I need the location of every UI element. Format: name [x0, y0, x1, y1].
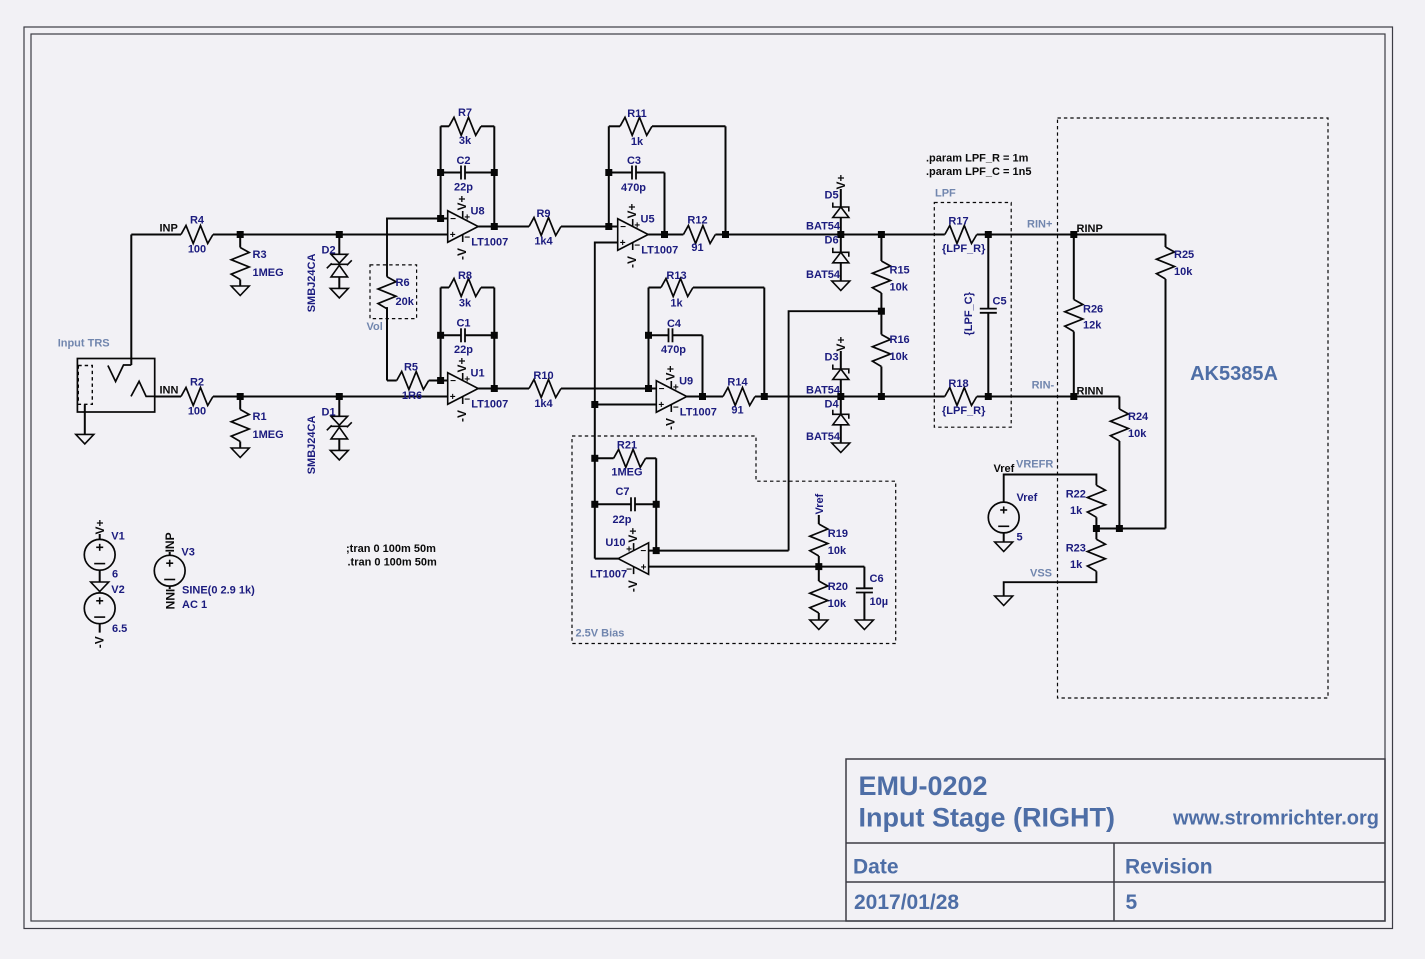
resistor R4: [181, 226, 213, 244]
svg-text:1R6: 1R6: [402, 390, 422, 402]
op-amp U9 LT1007: [656, 381, 687, 413]
node junction bias line U9: [591, 401, 598, 408]
dashed box AK5385A ADC: [1058, 118, 1329, 698]
svg-text:−: −: [634, 240, 640, 251]
svg-text:-V: -V: [455, 248, 469, 260]
svg-text:+: +: [634, 221, 640, 232]
resistor R13: [649, 287, 662, 289]
svg-text:VREFR: VREFR: [1016, 459, 1053, 471]
svg-text:+: +: [658, 400, 664, 411]
node junction U8 output: [491, 223, 498, 230]
wire R21 right vertical: [655, 458, 657, 551]
svg-text:U8: U8: [471, 206, 485, 218]
wire C3 right vertical down to U5 output: [664, 173, 666, 235]
svg-text:C1: C1: [456, 318, 470, 330]
svg-text:10k: 10k: [1174, 266, 1193, 278]
svg-text:U10: U10: [605, 537, 625, 549]
svg-text:1MEG: 1MEG: [253, 267, 284, 279]
node junction U9 output C4: [699, 393, 706, 400]
svg-text:R5: R5: [404, 362, 418, 374]
svg-text:+: +: [450, 392, 456, 403]
node junction D1 top: [336, 393, 343, 400]
svg-text:−: −: [640, 546, 646, 557]
svg-text:-V: -V: [664, 418, 678, 430]
svg-text:AK5385A: AK5385A: [1190, 363, 1278, 385]
ground D1: [330, 450, 348, 460]
svg-text:D1: D1: [322, 407, 336, 419]
resistor R9: [529, 218, 561, 236]
svg-text:1MEG: 1MEG: [253, 429, 284, 441]
svg-text:+: +: [641, 562, 647, 573]
node RINP: [1070, 231, 1077, 238]
svg-text:−: −: [673, 402, 679, 413]
svg-text:+: +: [464, 375, 470, 386]
svg-text:1k: 1k: [670, 298, 683, 310]
svg-text:C7: C7: [615, 486, 629, 498]
node junction C1 right: [491, 332, 498, 339]
title block: [846, 759, 1385, 921]
svg-text:R13: R13: [666, 270, 686, 282]
ground C6: [855, 620, 873, 630]
node junction U9 inverting input: [645, 385, 652, 392]
svg-text:R19: R19: [828, 528, 848, 540]
wire RIN+ row R12 to R17: [715, 234, 944, 236]
svg-text:10k: 10k: [828, 545, 847, 557]
node junction R16 bottom: [878, 393, 885, 400]
node junction U1 output: [491, 385, 498, 392]
svg-text:−: −: [659, 384, 665, 395]
wire midpoint to bias feedback: [789, 311, 882, 550]
svg-text:C5: C5: [993, 296, 1007, 308]
wire U10 inverting input from midpoint feedback: [649, 550, 789, 552]
svg-text:V+: V+: [455, 195, 469, 210]
svg-text:3k: 3k: [459, 298, 472, 310]
node junction R11 feedback: [722, 231, 729, 238]
svg-text:91: 91: [731, 405, 743, 417]
svg-text:1k4: 1k4: [534, 236, 553, 248]
wire U1 feedback right vertical: [493, 288, 495, 389]
node junction U5 inverting input: [605, 223, 612, 230]
diode D6 BAT54: [840, 235, 842, 253]
wire bias vertical line: [594, 405, 596, 559]
svg-text:D4: D4: [825, 399, 840, 411]
svg-text:LT1007: LT1007: [590, 568, 627, 580]
node junction R15 R16 midpoint: [878, 308, 885, 315]
svg-text:EMU-0202: EMU-0202: [859, 771, 988, 801]
svg-text:{LPF_C}: {LPF_C}: [963, 291, 975, 335]
svg-text:100: 100: [188, 406, 206, 418]
wire R9 to U5 inverting input: [561, 226, 618, 228]
ground Vref source: [1003, 533, 1005, 542]
svg-text:20k: 20k: [396, 296, 415, 308]
node RINN: [1070, 393, 1077, 400]
svg-text:BAT54: BAT54: [806, 385, 841, 397]
svg-text:V+: V+: [834, 336, 848, 351]
voltage source Vref: [988, 502, 1019, 533]
svg-text:R8: R8: [458, 270, 472, 282]
svg-text:U1: U1: [471, 368, 485, 380]
svg-text:-V: -V: [93, 636, 107, 648]
wire R6 bottom to R5: [386, 307, 388, 380]
svg-text:V2: V2: [111, 584, 124, 596]
svg-text:−: −: [464, 232, 470, 243]
node junction R22 R23: [1093, 525, 1100, 532]
wire R23 bottom to VSS ground: [1004, 571, 1097, 596]
svg-text:6.5: 6.5: [112, 623, 127, 635]
wire U5 noninverting input to bias line: [595, 243, 618, 405]
svg-text:D3: D3: [825, 352, 839, 364]
node junction C3 left: [605, 169, 612, 176]
resistor R2: [181, 388, 213, 406]
svg-text:1k: 1k: [1070, 505, 1083, 517]
capacitor C4: [649, 334, 669, 336]
svg-text:R23: R23: [1066, 542, 1086, 554]
wire INP to R4: [131, 234, 181, 236]
svg-text:BAT54: BAT54: [806, 221, 841, 233]
svg-text:R21: R21: [617, 440, 637, 452]
node junction C1 left: [437, 332, 444, 339]
svg-text:Vref: Vref: [814, 493, 826, 514]
ground R1: [231, 448, 249, 458]
svg-text:12k: 12k: [1083, 320, 1102, 332]
svg-text:R3: R3: [253, 249, 267, 261]
diode D1 SMBJ24CA TVS: [338, 397, 340, 417]
wire INN row R2 to U1 noninverting input: [213, 396, 448, 398]
resistor R20: [818, 567, 820, 581]
svg-text:V+: V+: [625, 203, 639, 218]
wire R11 right vertical down: [725, 126, 727, 234]
node junction R15 top: [878, 231, 885, 238]
resistor R7: [441, 125, 449, 127]
svg-text:LT1007: LT1007: [471, 237, 508, 249]
resistor R21: [595, 457, 614, 459]
svg-text:R25: R25: [1174, 249, 1194, 261]
capacitor C5: [987, 235, 989, 309]
svg-text:D6: D6: [825, 235, 839, 247]
wire R5 to U1 inverting input: [429, 380, 448, 382]
resistor R15: [880, 235, 882, 262]
wire RIN- row R14 to R18: [755, 396, 945, 398]
svg-text:R17: R17: [948, 216, 968, 228]
svg-text:1k4: 1k4: [534, 398, 553, 410]
svg-text:SINE(0 2.9 1k): SINE(0 2.9 1k): [182, 585, 255, 597]
wire U8 output to R9: [478, 226, 529, 228]
svg-text:R18: R18: [948, 378, 968, 390]
svg-text:V+: V+: [93, 519, 107, 534]
ground R3: [231, 286, 249, 296]
svg-text:Input TRS: Input TRS: [58, 337, 110, 349]
node junction R3 top: [237, 231, 244, 238]
ground R20: [810, 620, 828, 630]
resistor R23: [1095, 529, 1097, 540]
svg-text:RIN+: RIN+: [1027, 218, 1052, 230]
svg-text:R12: R12: [687, 215, 707, 227]
node junction R21 left: [591, 455, 598, 462]
svg-text:;tran 0 100m 50m: ;tran 0 100m 50m: [346, 543, 436, 555]
svg-text:22p: 22p: [454, 182, 473, 194]
node junction U5 output C3: [661, 231, 668, 238]
wire INP vertical from jack tip: [130, 235, 132, 366]
svg-text:V+: V+: [664, 365, 678, 380]
dashed box 2.5V Bias: [572, 436, 896, 644]
wire Vref to R22: [1004, 475, 1097, 503]
svg-text:−: −: [450, 214, 456, 225]
svg-text:10k: 10k: [828, 598, 847, 610]
ground V1 V2 node: [91, 582, 109, 592]
resistor R22: [1087, 485, 1105, 517]
wire C4 right vertical down to U9 output: [702, 335, 704, 396]
svg-text:{LPF_R}: {LPF_R}: [942, 243, 986, 255]
resistor R19: [818, 515, 820, 524]
svg-text:−: −: [620, 222, 626, 233]
svg-text:100: 100: [188, 244, 206, 256]
svg-text:C3: C3: [627, 155, 641, 167]
svg-text:LT1007: LT1007: [471, 399, 508, 411]
svg-text:1MEG: 1MEG: [611, 467, 642, 479]
wire U1 feedback left vertical: [440, 288, 442, 381]
svg-text:R9: R9: [536, 208, 550, 220]
svg-text:INP: INP: [160, 223, 178, 235]
svg-text:R20: R20: [828, 581, 848, 593]
wire R17 to RINP: [977, 234, 1166, 236]
node junction C4 left: [645, 332, 652, 339]
svg-text:R26: R26: [1083, 304, 1103, 316]
svg-text:INP: INP: [163, 532, 177, 552]
svg-text:R4: R4: [190, 215, 205, 227]
node junction R13 feedback: [761, 393, 768, 400]
resistor R10: [529, 380, 561, 398]
svg-text:Input Stage (RIGHT): Input Stage (RIGHT): [859, 803, 1115, 833]
svg-text:R16: R16: [890, 334, 910, 346]
dashed box Vol: [370, 265, 417, 319]
svg-text:22p: 22p: [613, 514, 632, 526]
svg-text:V+: V+: [626, 528, 640, 543]
svg-text:470p: 470p: [621, 182, 646, 194]
capacitor C6: [863, 567, 865, 589]
op-amp U1 LT1007: [448, 373, 479, 405]
wire U9 noninverting input to bias line: [595, 404, 657, 406]
ground jack sleeve: [76, 434, 94, 444]
node junction C2 right: [491, 169, 498, 176]
svg-text:−: −: [464, 394, 470, 405]
connector J1 Input TRS jack: [77, 359, 154, 413]
svg-text:R1: R1: [253, 411, 267, 423]
svg-text:V1: V1: [111, 531, 124, 543]
svg-text:LT1007: LT1007: [680, 407, 717, 419]
svg-text:SMBJ24CA: SMBJ24CA: [306, 254, 318, 313]
wire INN jack to R2: [155, 396, 181, 398]
node junction U8 inverting input: [437, 215, 444, 222]
svg-text:U9: U9: [679, 376, 693, 388]
resistor R5: [397, 372, 429, 390]
wire U5 feedback left vertical: [608, 126, 610, 226]
op-amp U5 LT1007: [618, 219, 649, 251]
capacitor C3: [609, 172, 632, 174]
svg-text:INN: INN: [163, 589, 177, 610]
svg-text:LT1007: LT1007: [641, 245, 678, 257]
node junction R1 top: [237, 393, 244, 400]
svg-text:{LPF_R}: {LPF_R}: [942, 405, 986, 417]
op-amp U8 LT1007: [448, 211, 479, 243]
svg-text:R22: R22: [1066, 488, 1086, 500]
node junction U1 inverting input: [437, 377, 444, 384]
wire R10 to U9 inverting input: [561, 388, 656, 390]
svg-text:V3: V3: [181, 547, 194, 559]
op-amp U10 LT1007: [618, 543, 649, 575]
wire R24 R25 bottom join: [1096, 528, 1165, 530]
capacitor C2: [441, 172, 461, 174]
resistor R14: [723, 388, 755, 406]
node junction D2 top: [336, 231, 343, 238]
wire R6 top to U8 inverting input: [387, 219, 448, 277]
wire U1 output to R10: [478, 388, 529, 390]
svg-text:RIN-: RIN-: [1032, 379, 1055, 391]
resistor R18: [945, 388, 977, 406]
svg-text:1k: 1k: [1070, 559, 1083, 571]
wire R18 to RINN: [977, 396, 1120, 398]
svg-text:R14: R14: [727, 377, 748, 389]
svg-text:R6: R6: [396, 277, 410, 289]
svg-text:+: +: [620, 238, 626, 249]
svg-text:-V: -V: [626, 580, 640, 592]
svg-text:5: 5: [1017, 531, 1023, 543]
svg-text:Date: Date: [853, 856, 899, 879]
svg-text:10k: 10k: [890, 282, 909, 294]
svg-text:V+: V+: [455, 357, 469, 372]
resistor R25: [1165, 235, 1167, 248]
svg-text:-V: -V: [455, 410, 469, 422]
capacitor C1: [441, 334, 461, 336]
node junction C5 top: [985, 231, 992, 238]
svg-text:V+: V+: [834, 174, 848, 189]
svg-text:www.stromrichter.org: www.stromrichter.org: [1172, 808, 1379, 830]
ground D6: [832, 281, 850, 291]
svg-text:.tran 0 100m 50m: .tran 0 100m 50m: [348, 557, 437, 569]
svg-text:10k: 10k: [1128, 428, 1147, 440]
svg-text:R15: R15: [890, 265, 910, 277]
svg-text:BAT54: BAT54: [806, 431, 841, 443]
svg-text:5: 5: [1126, 891, 1138, 914]
svg-text:Revision: Revision: [1125, 856, 1213, 879]
svg-text:+: +: [464, 213, 470, 224]
node junction D3 D4 RIN- row: [837, 393, 844, 400]
wire U8 feedback right vertical: [493, 126, 495, 226]
svg-text:AC 1: AC 1: [182, 599, 207, 611]
wire jack sleeve to ground: [84, 404, 86, 434]
svg-text:R24: R24: [1128, 411, 1149, 423]
svg-text:D2: D2: [322, 245, 336, 257]
wire U5 output to R12: [648, 234, 683, 236]
resistor R11: [609, 125, 620, 127]
node junction U10 inverting input: [653, 547, 660, 554]
resistor R12: [683, 226, 715, 244]
wire R13 right vertical down: [763, 288, 765, 397]
diode D4 BAT54: [840, 397, 842, 415]
node junction C7 right: [653, 501, 660, 508]
resistor R16: [880, 311, 882, 334]
svg-text:Vref: Vref: [1017, 492, 1038, 504]
resistor R24: [1074, 396, 1120, 398]
svg-text:C2: C2: [456, 155, 470, 167]
node junction D5 D6 RIN+ row: [837, 231, 844, 238]
svg-text:R11: R11: [627, 108, 647, 120]
svg-text:C6: C6: [870, 573, 884, 585]
svg-text:22p: 22p: [454, 344, 473, 356]
wire U10 noninverting input to R19 R20: [649, 566, 865, 568]
node junction R24 bottom: [1116, 525, 1123, 532]
node junction C5 bottom: [985, 393, 992, 400]
ground D4: [832, 443, 850, 453]
svg-text:RINP: RINP: [1077, 223, 1103, 235]
svg-text:Vol: Vol: [367, 321, 383, 333]
svg-text:3k: 3k: [459, 135, 472, 147]
ground VSS: [995, 596, 1013, 606]
svg-text:-V: -V: [625, 256, 639, 268]
svg-text:2.5V Bias: 2.5V Bias: [576, 628, 625, 640]
resistor R6 Vol: [378, 277, 396, 309]
svg-text:−: −: [450, 376, 456, 387]
node junction C7 left: [591, 501, 598, 508]
svg-text:1k: 1k: [631, 136, 644, 148]
svg-text:470p: 470p: [661, 344, 686, 356]
svg-text:+: +: [673, 383, 679, 394]
svg-text:+: +: [626, 545, 632, 556]
resistor R1: [239, 397, 241, 410]
svg-text:.param LPF_R = 1m: .param LPF_R = 1m: [926, 153, 1029, 165]
svg-text:R10: R10: [533, 370, 553, 382]
svg-text:D5: D5: [825, 190, 839, 202]
svg-text:91: 91: [691, 242, 703, 254]
svg-text:INN: INN: [160, 385, 179, 397]
svg-text:10k: 10k: [890, 351, 909, 363]
voltage source V2: [99, 592, 101, 594]
svg-text:R7: R7: [458, 107, 472, 119]
resistor R26: [1073, 235, 1075, 300]
wire INP row R4 to U8 noninverting input: [213, 234, 448, 236]
capacitor C7: [595, 503, 631, 505]
svg-text:R2: R2: [190, 377, 204, 389]
svg-text:SMBJ24CA: SMBJ24CA: [306, 416, 318, 475]
svg-text:LPF: LPF: [935, 188, 956, 200]
svg-text:C4: C4: [667, 318, 682, 330]
svg-text:10µ: 10µ: [870, 596, 889, 608]
dashed box LPF: [934, 203, 1011, 428]
svg-text:BAT54: BAT54: [806, 269, 841, 281]
resistor R8: [441, 287, 449, 289]
svg-text:VSS: VSS: [1030, 568, 1052, 580]
svg-text:.param LPF_C = 1n5: .param LPF_C = 1n5: [926, 166, 1031, 178]
wire U8 feedback left vertical: [440, 126, 442, 218]
svg-text:Vref: Vref: [994, 463, 1015, 475]
svg-text:U5: U5: [641, 214, 655, 226]
resistor R17: [945, 226, 977, 244]
diode D2 SMBJ24CA TVS: [338, 235, 340, 255]
svg-text:+: +: [450, 230, 456, 241]
wire U9 output to R14: [687, 396, 723, 398]
node junction R19 R20 C6: [815, 563, 822, 570]
ground D2: [330, 288, 348, 298]
svg-text:6: 6: [112, 569, 118, 581]
node junction C2 left: [437, 169, 444, 176]
wire U10 output to bias line: [595, 558, 618, 560]
svg-text:2017/01/28: 2017/01/28: [854, 891, 959, 914]
resistor R3: [239, 235, 241, 248]
wire U9 feedback left vertical: [648, 288, 650, 389]
